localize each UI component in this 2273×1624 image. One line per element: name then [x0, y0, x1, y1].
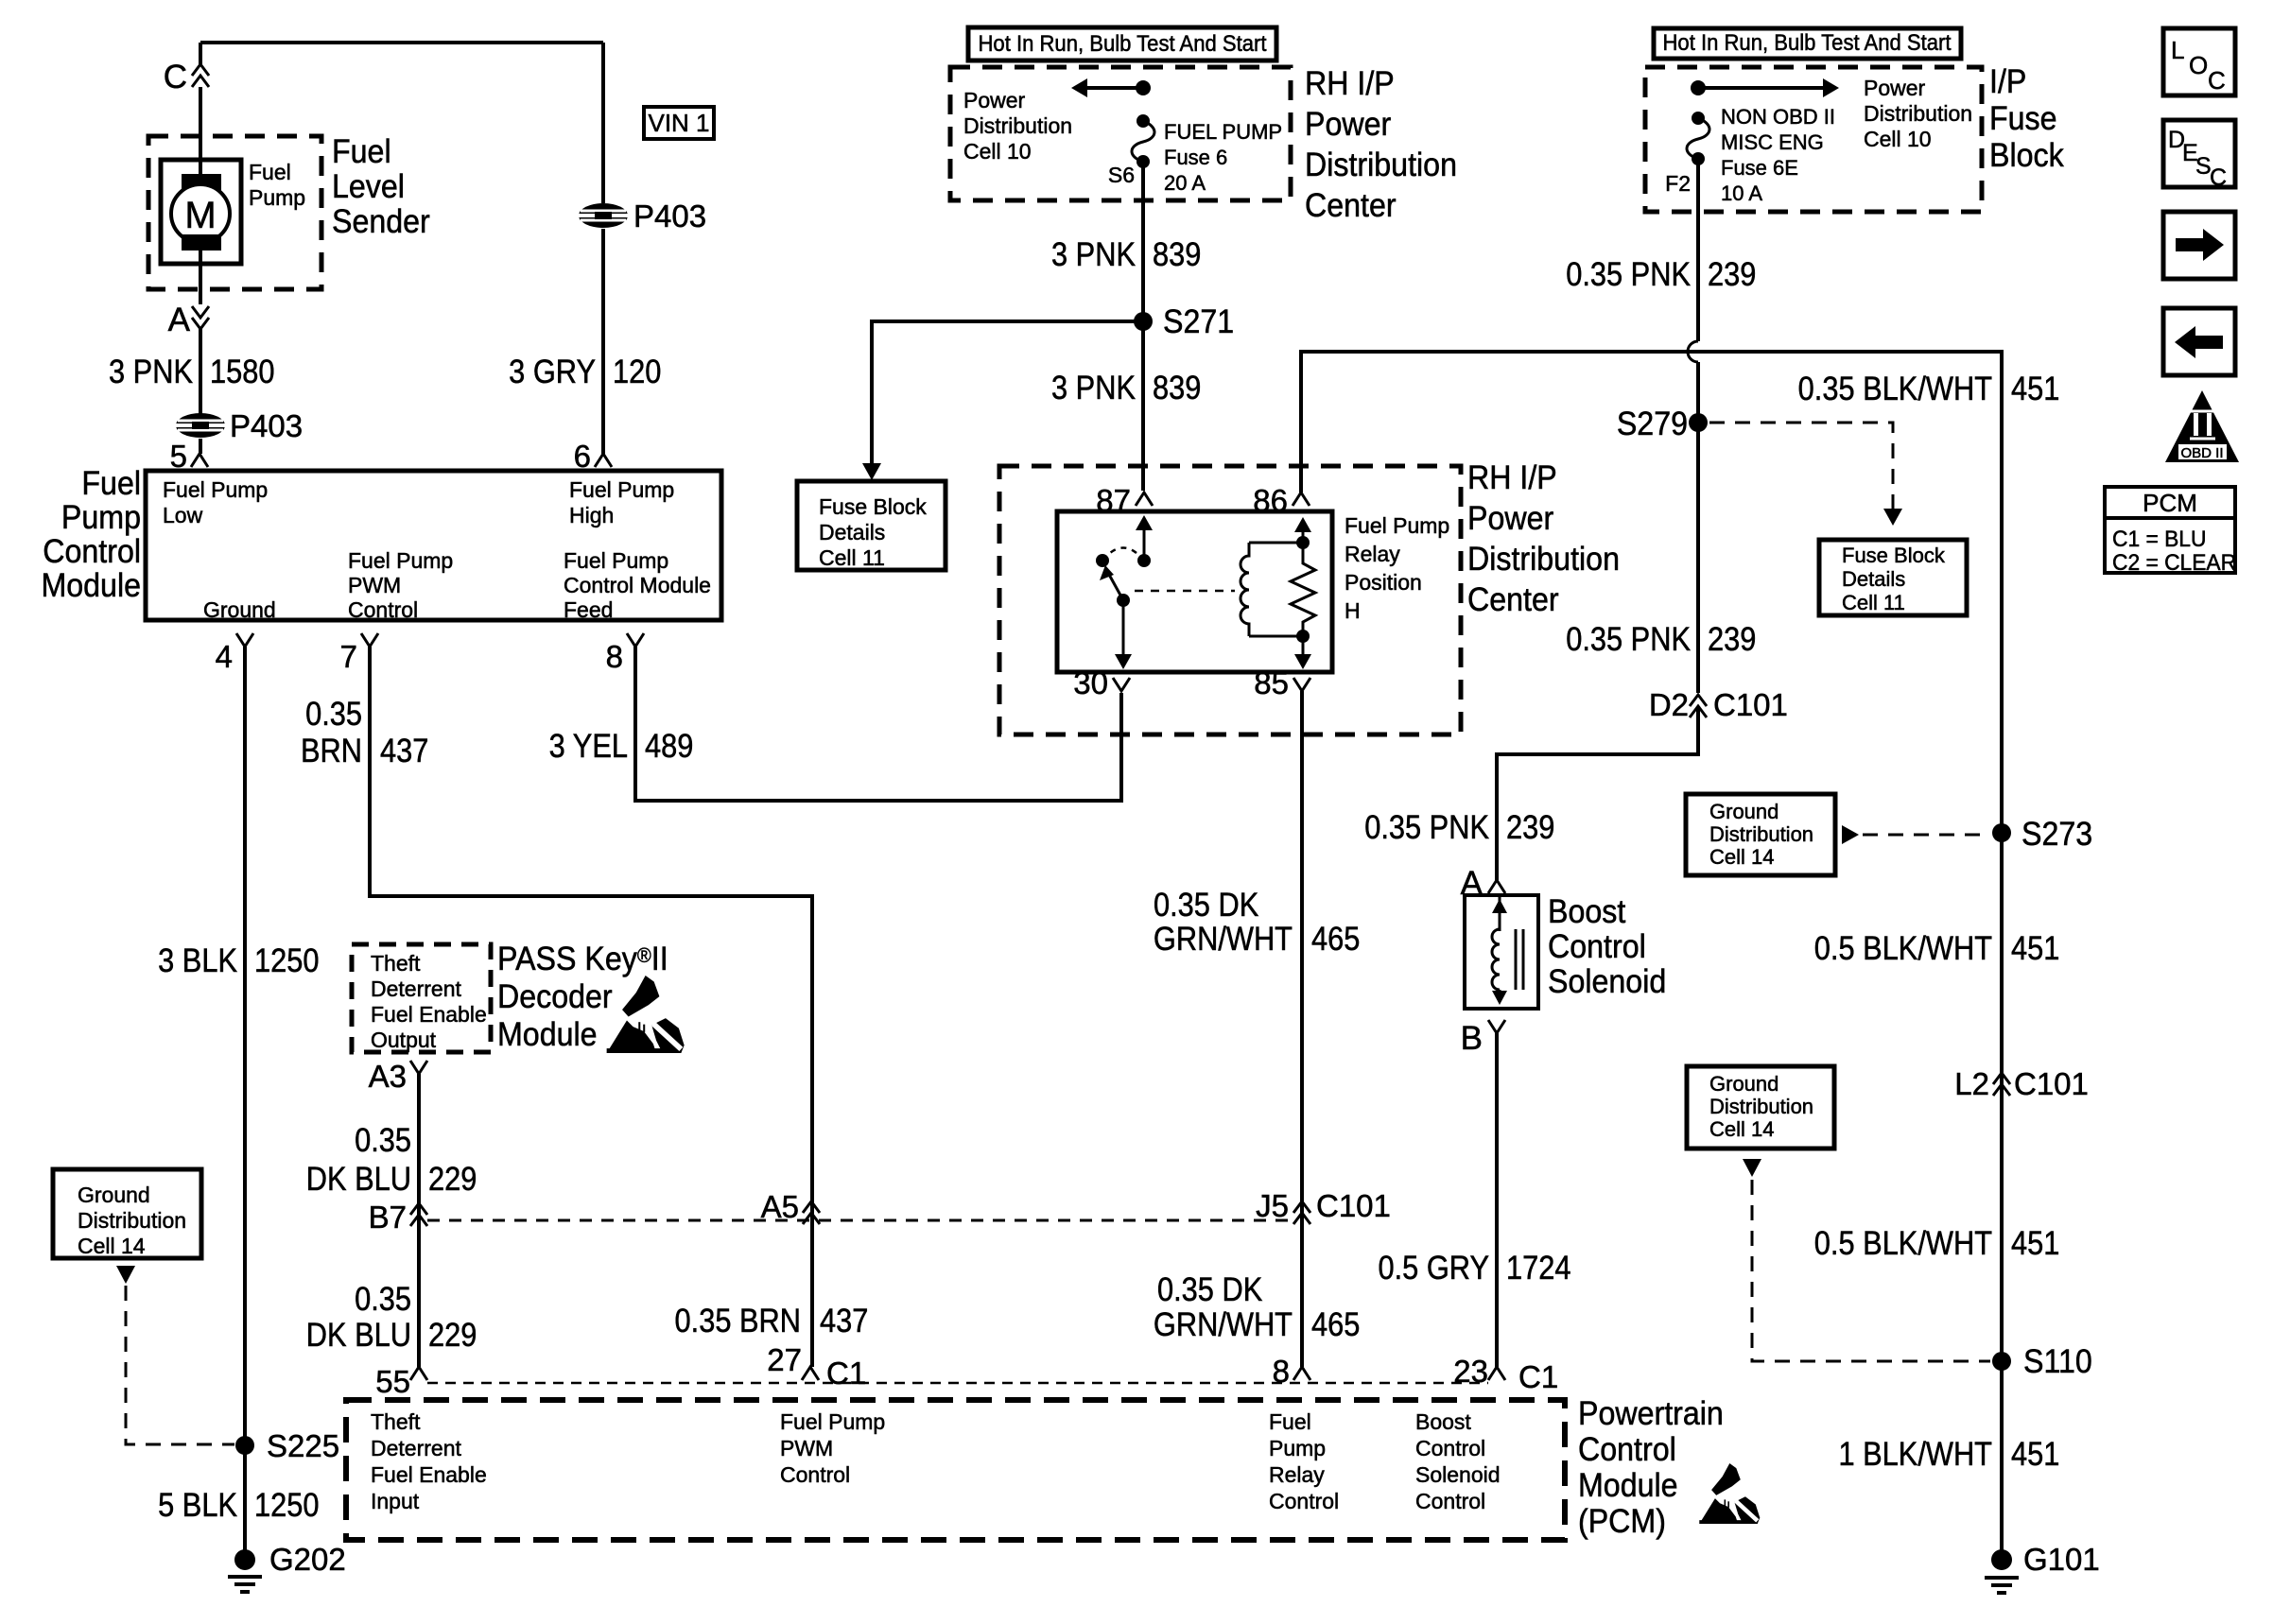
pin A boost — [1488, 880, 1505, 893]
svg-text:465: 465 — [1311, 920, 1360, 957]
Fuse Block Details Cell 11 box left — [797, 481, 946, 570]
svg-text:Center: Center — [1467, 582, 1559, 619]
svg-text:Control: Control — [780, 1462, 850, 1487]
svg-text:Fuel: Fuel — [81, 466, 141, 503]
svg-text:C101: C101 — [1713, 687, 1788, 722]
svg-text:0.35 BRN: 0.35 BRN — [675, 1302, 801, 1339]
svg-text:Cell 14: Cell 14 — [1709, 1117, 1774, 1141]
svg-text:0.35: 0.35 — [355, 1280, 411, 1317]
svg-text:Ground: Ground — [1709, 800, 1778, 823]
wire fuel pump PWM control — [370, 647, 812, 1367]
relay arrow 86 — [1302, 529, 1305, 543]
svg-text:PCM: PCM — [2143, 489, 2197, 517]
svg-text:Details: Details — [1842, 567, 1905, 591]
ESD symbol passkey — [622, 976, 659, 1016]
svg-text:RH I/P: RH I/P — [1467, 460, 1557, 497]
svg-text:Distribution: Distribution — [1305, 147, 1457, 184]
svg-text:451: 451 — [2011, 1435, 2059, 1472]
svg-text:Level: Level — [332, 169, 405, 206]
svg-text:PWM: PWM — [348, 573, 401, 597]
svg-text:Fuse Block: Fuse Block — [819, 494, 927, 519]
svg-text:C1: C1 — [1518, 1359, 1558, 1394]
Hot In Run Bulb Test And Start box 2 — [1654, 28, 1961, 59]
ground G101 — [1991, 1549, 2012, 1570]
svg-text:Powertrain: Powertrain — [1578, 1396, 1724, 1433]
icon left arrow box — [2163, 308, 2235, 375]
svg-text:Sender: Sender — [332, 204, 430, 241]
Fuse Block Details Cell 11 box right — [1819, 540, 1967, 615]
svg-text:Deterrent: Deterrent — [371, 976, 461, 1001]
pointer triangle right gdc lower — [1743, 1159, 1761, 1177]
svg-text:Fuse 6: Fuse 6 — [1164, 146, 1227, 169]
svg-text:Control: Control — [1269, 1489, 1339, 1513]
svg-text:Module: Module — [41, 568, 141, 605]
svg-text:Ground: Ground — [78, 1183, 150, 1207]
connector A5 C101 — [803, 1201, 820, 1213]
svg-text:Deterrent: Deterrent — [371, 1436, 461, 1460]
svg-text:Fuel Pump: Fuel Pump — [1345, 513, 1449, 538]
wire fuse to S271 — [1141, 162, 1145, 491]
IP fuse block dashed box — [1645, 67, 1982, 212]
svg-text:MISC ENG: MISC ENG — [1721, 130, 1824, 154]
pin 86 — [1293, 492, 1310, 506]
splice S279 — [1689, 413, 1708, 432]
svg-text:Fuel: Fuel — [249, 160, 291, 184]
svg-text:Fuel: Fuel — [1269, 1409, 1311, 1434]
wire relay 85 to pcm — [1300, 691, 1304, 1367]
pin 55 — [410, 1367, 427, 1380]
pin 4 — [236, 633, 253, 647]
svg-text:3 PNK: 3 PNK — [1051, 235, 1136, 272]
C101 dashed link B7-A5-J5 — [427, 1219, 1293, 1222]
splice S225 — [235, 1436, 254, 1455]
ground G202 — [234, 1549, 255, 1570]
svg-text:0.35: 0.35 — [305, 695, 362, 732]
svg-text:B: B — [1461, 1020, 1483, 1057]
svg-text:Cell 10: Cell 10 — [1864, 127, 1932, 151]
connector C — [192, 64, 209, 76]
svg-text:0.35 PNK: 0.35 PNK — [1566, 620, 1691, 657]
svg-text:Control Module: Control Module — [564, 573, 711, 597]
wire control module feed — [635, 647, 1121, 801]
svg-text:Control: Control — [348, 597, 418, 622]
svg-text:0.35 PNK: 0.35 PNK — [1364, 808, 1489, 845]
fuel pump motor M — [161, 160, 241, 264]
svg-text:1580: 1580 — [210, 353, 274, 389]
svg-text:G101: G101 — [2023, 1542, 2100, 1577]
svg-text:Distribution: Distribution — [78, 1208, 186, 1233]
svg-text:Input: Input — [371, 1489, 420, 1513]
svg-text:Fuel Pump: Fuel Pump — [569, 477, 674, 502]
svg-text:S271: S271 — [1163, 304, 1234, 341]
wire P403 to pin 5 — [199, 439, 202, 454]
fuse 6E NON OBD II 10A — [1692, 112, 1705, 125]
svg-text:D2: D2 — [1649, 687, 1689, 722]
svg-text:BRN: BRN — [301, 732, 362, 769]
svg-text:Distribution: Distribution — [1864, 101, 1972, 126]
svg-text:229: 229 — [428, 1316, 477, 1353]
svg-text:85: 85 — [1254, 665, 1289, 700]
svg-text:437: 437 — [820, 1302, 868, 1339]
svg-text:C2 = CLEAR: C2 = CLEAR — [2112, 549, 2236, 575]
svg-text:Control: Control — [1578, 1432, 1676, 1469]
pin 85 — [1293, 678, 1310, 691]
svg-text:Theft: Theft — [371, 951, 421, 976]
wire P403 to pin 6 — [601, 229, 605, 454]
RH IP power distribution center dashed box — [950, 67, 1291, 200]
VIN 1 box — [644, 107, 714, 139]
svg-text:Cell 11: Cell 11 — [1842, 591, 1905, 614]
wire boost to pcm 23 — [1495, 1033, 1499, 1367]
svg-text:Distribution: Distribution — [963, 113, 1072, 138]
svg-text:C1: C1 — [826, 1356, 866, 1391]
svg-text:27: 27 — [767, 1342, 802, 1377]
svg-text:Theft: Theft — [371, 1409, 421, 1434]
svg-text:451: 451 — [2011, 929, 2059, 966]
ESD symbol pcm — [1711, 1463, 1741, 1495]
svg-text:5: 5 — [170, 439, 187, 474]
inline connector P403 right — [579, 203, 628, 228]
svg-text:High: High — [569, 503, 614, 527]
svg-text:Power: Power — [1467, 501, 1553, 538]
svg-text:5 BLK: 5 BLK — [158, 1486, 237, 1523]
svg-text:I/P: I/P — [1989, 64, 2026, 101]
svg-text:C: C — [2210, 164, 2227, 191]
svg-text:L: L — [2171, 36, 2184, 64]
wire A3 to pin 55 — [417, 1074, 421, 1367]
connector D2 C101 — [1690, 695, 1707, 706]
svg-text:VIN 1: VIN 1 — [648, 109, 709, 137]
feed arrow right — [1698, 86, 1825, 90]
dashed line gdc to S225 — [126, 1286, 234, 1444]
svg-text:Output: Output — [371, 1028, 437, 1052]
RH IP PDC dashed box relay — [999, 466, 1461, 734]
feed arrow left — [1085, 86, 1143, 90]
svg-text:Ground: Ground — [203, 597, 276, 622]
svg-text:(PCM): (PCM) — [1578, 1504, 1666, 1541]
svg-text:0.35 BLK/WHT: 0.35 BLK/WHT — [1798, 370, 1992, 406]
Powertrain Control Module dashed box — [346, 1400, 1565, 1540]
svg-text:465: 465 — [1311, 1305, 1360, 1342]
svg-text:Control: Control — [1415, 1489, 1485, 1513]
Ground Distribution Cell 14 box right upper — [1686, 794, 1835, 875]
svg-text:239: 239 — [1506, 808, 1554, 845]
fuse 6 fuel pump 20A — [1136, 114, 1150, 128]
svg-text:451: 451 — [2011, 1224, 2059, 1261]
svg-text:30: 30 — [1073, 665, 1108, 700]
pointer triangle right gdc upper — [1842, 825, 1859, 844]
svg-text:55: 55 — [375, 1364, 410, 1399]
dashed S279 to fuse block details — [1709, 423, 1893, 509]
svg-text:Fuel Enable: Fuel Enable — [371, 1002, 487, 1027]
svg-text:Decoder: Decoder — [497, 979, 613, 1016]
svg-text:239: 239 — [1708, 255, 1756, 292]
pin 87 — [1136, 492, 1153, 506]
relay arrow 85 — [1302, 636, 1305, 656]
svg-text:Pump: Pump — [1269, 1436, 1326, 1460]
svg-text:Hot In Run, Bulb Test And Star: Hot In Run, Bulb Test And Start — [1662, 29, 1952, 55]
icon DESC box — [2163, 120, 2235, 187]
boost control solenoid box — [1465, 895, 1538, 1009]
pin 5 — [191, 454, 208, 467]
inline connector P403 left — [176, 413, 225, 438]
wire F2 down with hop — [1696, 159, 1700, 341]
wire ground 1250 — [243, 647, 247, 1560]
C1 connector dashed line — [427, 1382, 1488, 1385]
svg-text:0.35 PNK: 0.35 PNK — [1566, 255, 1691, 292]
svg-text:0.35: 0.35 — [355, 1121, 411, 1158]
relay coil resistor — [1291, 543, 1315, 636]
svg-text:Fuel Pump: Fuel Pump — [564, 548, 668, 573]
svg-text:Details: Details — [819, 520, 885, 544]
svg-text:J5: J5 — [1256, 1188, 1289, 1223]
svg-text:P403: P403 — [230, 408, 303, 443]
svg-text:839: 839 — [1153, 369, 1201, 406]
svg-text:Cell 10: Cell 10 — [963, 139, 1032, 164]
svg-text:Power: Power — [963, 88, 1026, 112]
wire motor to A — [199, 251, 202, 304]
svg-text:GRN/WHT: GRN/WHT — [1154, 1305, 1293, 1342]
svg-text:Fuse: Fuse — [1989, 101, 2057, 138]
relay switch pivot — [1096, 554, 1109, 567]
Ground Distribution Cell 14 box left — [53, 1169, 201, 1258]
svg-text:M: M — [184, 195, 216, 236]
svg-text:C: C — [164, 59, 187, 95]
svg-text:0.5 BLK/WHT: 0.5 BLK/WHT — [1814, 929, 1992, 966]
svg-text:8: 8 — [606, 639, 623, 674]
svg-text:23: 23 — [1453, 1354, 1488, 1389]
branch S271 to fuse block details — [872, 321, 1143, 465]
svg-text:3 GRY: 3 GRY — [509, 353, 596, 389]
svg-text:3 YEL: 3 YEL — [549, 727, 628, 764]
fuel pump relay box — [1057, 511, 1332, 672]
pin 8 — [627, 633, 644, 647]
svg-text:Low: Low — [163, 503, 203, 527]
wire A to P403 — [199, 329, 202, 414]
svg-text:10 A: 10 A — [1721, 181, 1762, 205]
wire to P403 right — [601, 43, 605, 203]
svg-text:229: 229 — [428, 1160, 477, 1197]
svg-text:Module: Module — [1578, 1468, 1678, 1505]
svg-text:Ground: Ground — [1709, 1072, 1778, 1096]
svg-text:GRN/WHT: GRN/WHT — [1154, 920, 1293, 957]
wire relay 86 to ground bus — [1301, 352, 2002, 1560]
relay mechanical dashed link — [1135, 590, 1235, 593]
svg-text:Pump: Pump — [249, 185, 305, 210]
svg-text:S273: S273 — [2021, 817, 2092, 854]
svg-text:4: 4 — [216, 639, 233, 674]
svg-text:Cell 14: Cell 14 — [78, 1234, 146, 1258]
pin B boost — [1488, 1020, 1505, 1033]
svg-text:0.5 GRY: 0.5 GRY — [1378, 1249, 1489, 1286]
relay coil — [1241, 543, 1249, 636]
svg-text:Cell 11: Cell 11 — [819, 545, 885, 570]
svg-text:S6: S6 — [1108, 163, 1135, 187]
connector A — [192, 306, 209, 318]
svg-text:S110: S110 — [2023, 1344, 2092, 1381]
connector L2 C101 — [1993, 1073, 2010, 1084]
svg-text:437: 437 — [380, 732, 428, 769]
svg-text:451: 451 — [2011, 370, 2059, 406]
svg-text:8: 8 — [1273, 1354, 1290, 1389]
pin 6 — [595, 454, 612, 467]
svg-text:Feed: Feed — [564, 597, 613, 622]
connector J5 C101 — [1293, 1201, 1310, 1213]
svg-text:Control: Control — [43, 534, 141, 571]
svg-text:O: O — [2189, 51, 2208, 79]
svg-text:Solenoid: Solenoid — [1415, 1462, 1501, 1487]
splice S110 — [1992, 1352, 2011, 1371]
icon LOC box — [2163, 28, 2235, 95]
svg-text:489: 489 — [645, 727, 693, 764]
svg-text:6: 6 — [574, 439, 591, 474]
icon OBD II triangle — [2165, 390, 2239, 462]
svg-text:239: 239 — [1708, 620, 1756, 657]
relay switch arm — [1108, 573, 1123, 600]
svg-text:0.35 DK: 0.35 DK — [1157, 1270, 1262, 1307]
svg-text:20 A: 20 A — [1164, 171, 1206, 195]
svg-text:0.5 BLK/WHT: 0.5 BLK/WHT — [1814, 1224, 1992, 1261]
svg-text:839: 839 — [1153, 235, 1201, 272]
svg-text:120: 120 — [613, 353, 661, 389]
dashed gdc lower to S110 — [1752, 1180, 1990, 1361]
svg-text:C: C — [2208, 66, 2226, 95]
Hot In Run Bulb Test And Start box 1 — [968, 27, 1276, 60]
svg-text:DK BLU: DK BLU — [306, 1160, 411, 1197]
svg-text:1 BLK/WHT: 1 BLK/WHT — [1838, 1435, 1992, 1472]
wire D2 to boost solenoid — [1497, 706, 1698, 880]
svg-text:Cell 14: Cell 14 — [1709, 845, 1774, 869]
svg-text:Control: Control — [1415, 1436, 1485, 1460]
svg-text:Solenoid: Solenoid — [1548, 964, 1666, 1001]
svg-text:OBD II: OBD II — [2180, 445, 2223, 461]
svg-text:Block: Block — [1989, 138, 2064, 175]
svg-text:Fuel Enable: Fuel Enable — [371, 1462, 487, 1487]
wire fuel pump top run — [200, 41, 603, 44]
PCM legend box — [2105, 487, 2235, 573]
wire C to motor — [199, 87, 202, 176]
dashed gdc to S273 — [1863, 834, 1990, 837]
svg-text:S279: S279 — [1617, 406, 1688, 443]
svg-text:Distribution: Distribution — [1467, 542, 1620, 579]
svg-text:A: A — [168, 302, 191, 338]
svg-text:NON OBD II: NON OBD II — [1721, 105, 1835, 129]
svg-text:PWM: PWM — [780, 1436, 833, 1460]
pin 8 pcm — [1293, 1367, 1310, 1380]
svg-text:DK BLU: DK BLU — [306, 1316, 411, 1353]
svg-text:Fuel Pump: Fuel Pump — [348, 548, 453, 573]
boost solenoid coil — [1499, 895, 1501, 931]
svg-text:P403: P403 — [633, 199, 706, 233]
relay arm to pin 30 arrow — [1122, 600, 1125, 658]
svg-text:Boost: Boost — [1548, 894, 1626, 931]
Ground Distribution Cell 14 box right lower — [1687, 1066, 1834, 1149]
splice S273 — [1992, 823, 2011, 842]
svg-text:Fuel Pump: Fuel Pump — [163, 477, 268, 502]
svg-text:A3: A3 — [369, 1059, 407, 1094]
svg-text:L2: L2 — [1954, 1066, 1989, 1101]
pin 7 — [361, 633, 378, 647]
svg-text:A5: A5 — [761, 1189, 799, 1224]
svg-text:FUEL PUMP: FUEL PUMP — [1164, 120, 1282, 144]
svg-text:1250: 1250 — [254, 1486, 319, 1523]
svg-text:Relay: Relay — [1269, 1462, 1325, 1487]
svg-text:Boost: Boost — [1415, 1409, 1471, 1434]
svg-text:F2: F2 — [1665, 171, 1691, 196]
svg-text:Fuel Pump: Fuel Pump — [780, 1409, 885, 1434]
svg-text:3 PNK: 3 PNK — [109, 353, 193, 389]
svg-text:Relay: Relay — [1345, 542, 1400, 566]
svg-text:Distribution: Distribution — [1709, 822, 1813, 846]
svg-text:Fuse Block: Fuse Block — [1842, 544, 1946, 567]
svg-text:Fuse 6E: Fuse 6E — [1721, 156, 1798, 180]
svg-text:7: 7 — [340, 639, 357, 674]
svg-text:C1 = BLU: C1 = BLU — [2112, 526, 2206, 551]
svg-text:S225: S225 — [267, 1428, 339, 1463]
svg-text:1250: 1250 — [254, 942, 319, 978]
svg-text:Position: Position — [1345, 570, 1422, 595]
svg-text:Power: Power — [1305, 107, 1391, 144]
splice S271 — [1134, 312, 1153, 331]
svg-text:Center: Center — [1305, 188, 1397, 225]
pointer triangle left gdc — [116, 1266, 135, 1284]
svg-text:1724: 1724 — [1506, 1249, 1570, 1286]
svg-text:3 BLK: 3 BLK — [158, 942, 237, 978]
relay contact arrow 87 — [1143, 529, 1146, 561]
svg-text:Pump: Pump — [61, 500, 141, 537]
PASS Key II theft deterrent dashed box — [352, 944, 491, 1052]
pin 23 C1 — [1488, 1367, 1505, 1380]
fuel level sender dashed box — [148, 136, 321, 289]
svg-text:0.35 DK: 0.35 DK — [1154, 886, 1258, 923]
svg-text:3 PNK: 3 PNK — [1051, 369, 1136, 406]
svg-text:RH I/P: RH I/P — [1305, 66, 1395, 103]
svg-text:Distribution: Distribution — [1709, 1095, 1813, 1118]
icon right arrow box — [2163, 212, 2235, 279]
svg-text:Control: Control — [1548, 929, 1646, 966]
svg-text:C101: C101 — [1316, 1188, 1391, 1223]
svg-text:C101: C101 — [2014, 1066, 2089, 1101]
pin 27 C1 — [802, 1367, 819, 1380]
pin A3 — [410, 1061, 427, 1074]
svg-text:Fuel: Fuel — [332, 134, 391, 171]
svg-text:B7: B7 — [369, 1200, 407, 1235]
Fuel Pump Control Module box — [146, 471, 721, 620]
pin 30 — [1113, 678, 1130, 691]
svg-text:Hot In Run, Bulb Test And Star: Hot In Run, Bulb Test And Start — [978, 30, 1267, 56]
svg-text:G202: G202 — [269, 1542, 346, 1577]
svg-text:Power: Power — [1864, 76, 1926, 100]
connector B7 — [410, 1203, 427, 1215]
svg-text:H: H — [1345, 598, 1361, 623]
svg-text:Module: Module — [497, 1017, 598, 1054]
